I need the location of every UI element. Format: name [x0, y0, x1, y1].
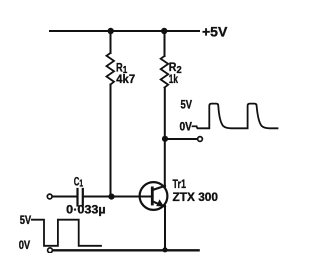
capacitor C1 plate left — [76, 189, 78, 206]
resistor R1 — [107, 53, 115, 85]
svg-text:5V: 5V — [181, 98, 193, 112]
wire R2 bottom to collector junction — [164, 88, 166, 188]
transistor Tr1 emitter arrowhead — [156, 199, 164, 206]
wire rail to R1 top — [110, 31, 112, 53]
node junction dot rail/R2 — [161, 28, 167, 34]
svg-text:5V: 5V — [20, 213, 32, 227]
wire base junction to transistor base — [112, 196, 153, 198]
wire collector junction to output terminal — [165, 138, 197, 140]
capacitor C1 plate right — [82, 189, 84, 206]
node base junction dot — [108, 194, 114, 200]
svg-text:0·033µ: 0·033µ — [66, 202, 106, 216]
terminal input open circle — [47, 194, 52, 199]
transistor Tr1 collector diagonal — [153, 186, 166, 190]
svg-text:ZTX 300: ZTX 300 — [173, 190, 219, 204]
wire R1 bottom to base junction — [110, 85, 112, 197]
node emitter/ground junction — [162, 247, 167, 252]
output waveform — [197, 104, 278, 129]
transistor Tr1 base bar — [151, 188, 154, 204]
svg-text:C1: C1 — [74, 176, 84, 189]
wire 0V dash to waveform — [193, 125, 197, 127]
node collector junction dot — [162, 136, 168, 142]
svg-text:4k7: 4k7 — [116, 72, 135, 86]
wire rail to R2 top — [164, 31, 166, 56]
ground rail — [53, 249, 199, 251]
svg-text:0V: 0V — [180, 119, 193, 133]
terminal output open circle — [198, 137, 203, 142]
svg-text:+5V: +5V — [202, 24, 228, 40]
svg-text:1k: 1k — [169, 72, 178, 86]
wire emitter to ground rail — [164, 206, 166, 250]
transistor Tr1 circle — [140, 182, 168, 210]
transistor Tr1 emitter diagonal — [153, 201, 166, 207]
node junction dot rail/R1 — [108, 28, 114, 34]
resistor R2 — [161, 56, 169, 88]
wire input terminal to C1 — [52, 196, 76, 198]
wire +5V top rail — [50, 30, 199, 32]
wire C1 to base junction — [84, 196, 112, 198]
terminal ground open circle — [48, 248, 53, 253]
input waveform — [32, 220, 101, 246]
svg-text:0V: 0V — [19, 238, 31, 252]
